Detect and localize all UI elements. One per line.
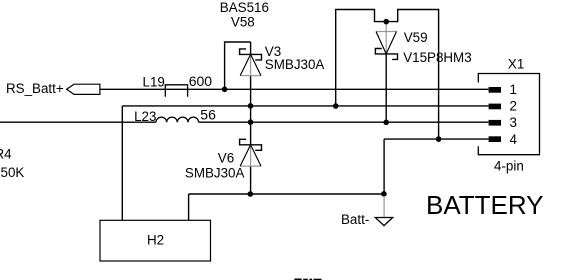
- diode V59 triangle sides: [376, 32, 397, 54]
- wire left loop vertical to BAS516/V58 node: [224, 42, 226, 89]
- junction dot V3-V6/pin2: [248, 103, 254, 109]
- connector X1 bracket: [478, 74, 539, 155]
- Batt- net arrow stem (gray): [383, 196, 385, 218]
- wire pin3 line left segment: [0, 121, 156, 123]
- wire pin2 line: [122, 105, 488, 107]
- svg-text:Batt-: Batt-: [341, 212, 369, 227]
- diode V3 triangle (gray base and core): [250, 54, 252, 75]
- svg-text:RS_Batt+: RS_Batt+: [6, 81, 64, 96]
- wire V3 anode down through pin2/pin3 lines to V6: [250, 76, 252, 145]
- wire Batt- line: [189, 193, 384, 195]
- connector X1 pin 2 pad: [489, 104, 501, 110]
- clipped footer text top edge: [294, 279, 321, 280]
- junction dot V6 anode/Batt- line: [248, 191, 254, 197]
- wire pin4 corner down to Batt- node: [383, 139, 385, 194]
- svg-text:V59: V59: [404, 30, 428, 45]
- junction dot V59 left rail/pin2: [333, 103, 339, 109]
- junction dot V59 cathode/pin3: [383, 120, 389, 126]
- junction dot V59 anode/top rail: [383, 19, 389, 25]
- wire left loop top: [224, 41, 251, 43]
- junction dot V3-V6/pin3: [248, 119, 254, 125]
- RS_Batt+ port pentagon: [67, 84, 100, 94]
- wire pin2 corner down to H2 pin: [121, 106, 123, 220]
- svg-text:4: 4: [510, 132, 518, 147]
- svg-text:R4: R4: [0, 147, 12, 162]
- svg-text:BAS516: BAS516: [220, 0, 269, 15]
- svg-text:2: 2: [510, 99, 517, 114]
- svg-text:56: 56: [200, 107, 216, 123]
- svg-text:1: 1: [510, 82, 517, 97]
- svg-text:3: 3: [510, 115, 517, 130]
- svg-text:4-pin: 4-pin: [494, 159, 524, 174]
- connector X1 pin 4 pad: [489, 136, 501, 142]
- svg-text:L23: L23: [134, 109, 156, 124]
- wire H2 right pin: [188, 194, 190, 220]
- svg-text:H2: H2: [147, 233, 164, 248]
- wire V6 anode to Batt- line: [250, 166, 252, 194]
- svg-text:V6: V6: [218, 151, 234, 166]
- wire V59 cathode down to pin3 line: [385, 54, 387, 122]
- svg-text:50K: 50K: [1, 165, 25, 180]
- svg-text:BATTERY: BATTERY: [426, 190, 544, 220]
- wire pin1 line RS_Batt+ net: [100, 88, 489, 90]
- wire pin4 line: [384, 138, 489, 140]
- wire V59 top rail: [336, 10, 439, 140]
- diode V59 anode stem (gray): [385, 22, 387, 54]
- junction dot Batt- stem: [381, 191, 387, 197]
- wire pin3 line right segment: [199, 121, 489, 123]
- connector X1 pin 1 pad: [489, 87, 501, 93]
- diode V59 triangle top edge (gray): [376, 31, 397, 33]
- inductor L23 coil humps: [156, 117, 199, 122]
- diode V59 cathode bar with hooks: [375, 49, 397, 60]
- svg-text:X1: X1: [508, 57, 524, 72]
- H2 heater box: [100, 220, 211, 261]
- svg-text:SMBJ30A: SMBJ30A: [185, 165, 245, 180]
- diode V6 cathode bar with hooks: [240, 139, 262, 150]
- svg-text:L19: L19: [143, 75, 165, 90]
- svg-text:V58: V58: [231, 15, 255, 30]
- Batt- net arrow triangle: [375, 218, 392, 226]
- wire loop down to V3 cathode: [250, 42, 252, 54]
- diode V3 cathode bar with hooks: [240, 49, 262, 60]
- junction dot V59 right rail/pin4: [436, 136, 442, 142]
- svg-text:SMBJ30A: SMBJ30A: [265, 57, 325, 72]
- svg-text:600: 600: [189, 73, 213, 89]
- svg-text:V15P8HM3: V15P8HM3: [403, 50, 471, 65]
- L19 ferrite bead staple: [165, 85, 187, 97]
- diode V6 triangle: [250, 145, 252, 166]
- connector X1 pin 3 pad: [489, 120, 501, 126]
- junction dot loop/pin1: [222, 87, 228, 93]
